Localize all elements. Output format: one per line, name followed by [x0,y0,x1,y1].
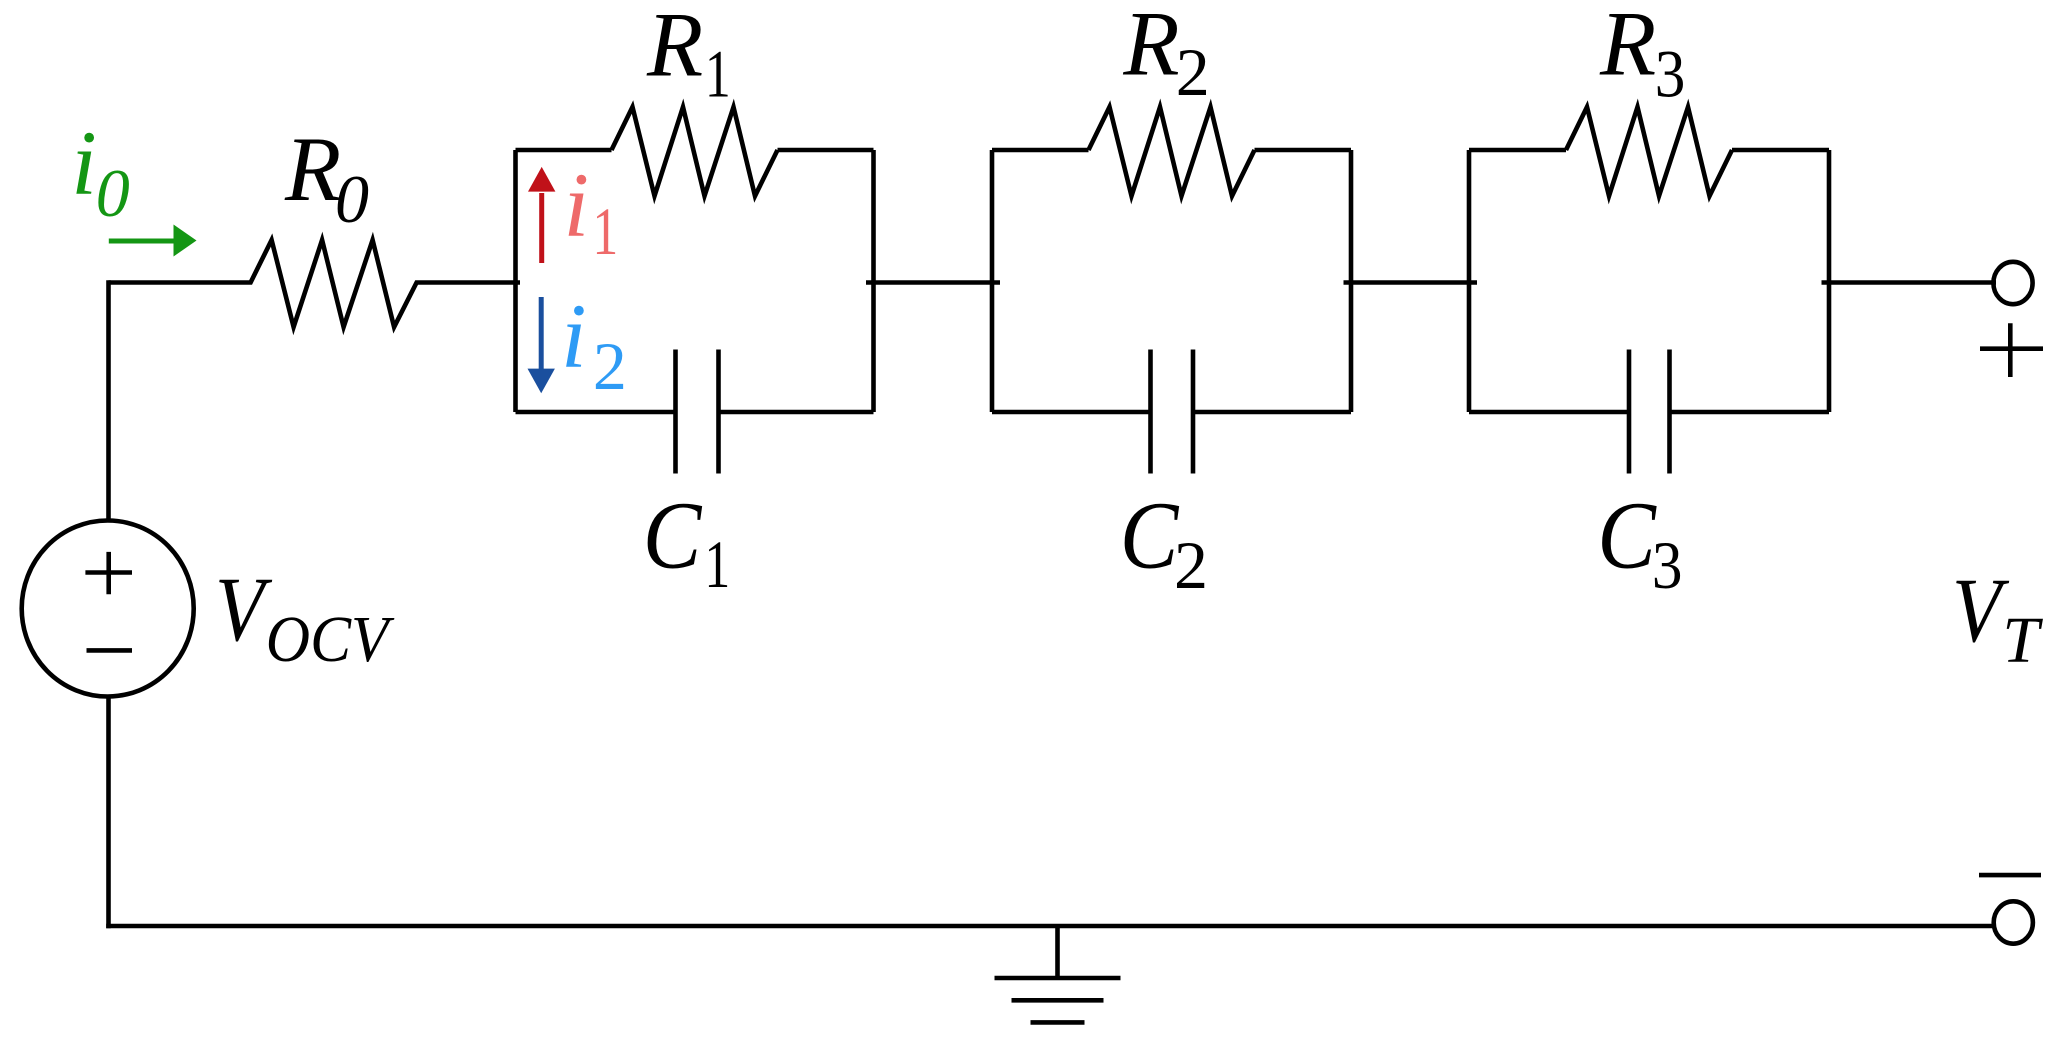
wire: left vertical from source bottom to bottom rail [106,696,111,928]
resistor R2 zigzag [1089,107,1255,196]
wire between box2 and box3 [1344,280,1478,285]
svg-text:1: 1 [705,37,731,112]
box 3 bottom edge right segment [1670,410,1830,415]
RC box 1 left edge [513,150,518,412]
ground bar 3 [1031,1020,1085,1025]
RC box 3 left edge [1467,150,1472,412]
plus sign at positive terminal [1980,323,2043,377]
box 2 bottom edge right segment [1193,410,1351,415]
svg-text:2: 2 [1176,34,1210,110]
current arrow i1 (red) [528,167,555,263]
box 2 top edge right segment [1255,148,1352,153]
negative terminal circle [1994,901,2033,943]
capacitor C1 left plate [673,350,678,474]
svg-text:3: 3 [1652,527,1683,603]
capacitor C2 left plate [1148,350,1153,474]
svg-text:V: V [1952,559,2010,661]
wire: bottom rail [106,924,1993,929]
svg-text:i: i [71,112,97,214]
svg-text:1: 1 [592,194,618,269]
voltage source plus sign [85,552,132,594]
resistor R0 with leads [109,240,521,327]
box 3 top edge right segment [1732,148,1829,153]
svg-text:2: 2 [1174,527,1208,603]
ground bar 2 [1012,998,1104,1003]
capacitor C1 right plate [716,350,721,474]
minus sign at negative terminal [1979,873,2041,878]
svg-text:C: C [643,482,703,588]
svg-text:C: C [1120,482,1180,588]
resistor R3 zigzag [1566,107,1732,196]
box 2 bottom edge left segment [992,410,1150,415]
svg-text:i: i [561,285,587,387]
RC box 2 right edge [1349,150,1354,412]
svg-text:1: 1 [704,527,730,602]
box 1 bottom edge left segment [516,410,676,415]
RC box 3 right edge [1827,150,1832,412]
svg-text:C: C [1597,482,1657,588]
wire from box3 to positive terminal [1822,280,1997,285]
capacitor C2 right plate [1191,350,1196,474]
svg-text:i: i [564,154,590,256]
ground stem [1055,926,1060,978]
svg-text:R: R [646,0,703,96]
positive terminal circle [1993,262,2032,304]
RC box 1 right edge [871,150,876,412]
svg-text:0: 0 [96,155,130,231]
svg-text:R: R [284,118,341,220]
RC box 2 left edge [990,150,995,412]
svg-text:2: 2 [593,328,627,404]
box 1 top edge left segment [516,148,612,153]
svg-text:3: 3 [1655,36,1686,112]
current arrow i0 (green) [109,225,197,257]
box 3 top edge left segment [1469,148,1566,153]
box 2 top edge left segment [992,148,1089,153]
voltage source minus sign [87,648,133,653]
resistor R1 zigzag [612,107,778,196]
svg-text:R: R [1599,0,1656,95]
svg-text:OCV: OCV [266,602,396,676]
svg-text:V: V [215,558,273,660]
svg-text:0: 0 [335,161,369,237]
box 3 bottom edge left segment [1469,410,1629,415]
ground bar 1 [995,976,1121,981]
wire: left vertical from top wire to source top [106,280,111,521]
box 1 top edge right segment [778,148,874,153]
svg-text:R: R [1122,0,1179,95]
capacitor C3 right plate [1667,350,1672,474]
capacitor C3 left plate [1627,350,1632,474]
wire between box1 and box2 [866,280,1000,285]
voltage source U1 circle [22,521,194,697]
box 1 bottom edge right segment [719,410,874,415]
current arrow i2 (dark blue) [528,297,555,393]
svg-text:T: T [2002,604,2043,677]
